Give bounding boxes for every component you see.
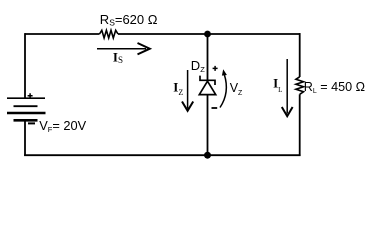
svg-text:IS: IS (113, 50, 123, 66)
wire right lower (299, 94, 301, 156)
svg-text:VF= 20V: VF= 20V (39, 118, 86, 134)
resistor R_S zigzag (100, 30, 119, 38)
svg-text:IZ: IZ (173, 80, 183, 97)
current arrow I_L (282, 59, 293, 116)
battery V_F plates (7, 98, 46, 120)
voltage arc arrow V_Z (220, 69, 227, 107)
node junction top (204, 31, 211, 38)
wire middle lower (207, 95, 209, 156)
current arrow I_S (97, 43, 150, 54)
svg-text:VZ: VZ (230, 81, 243, 97)
resistor R_L zigzag (296, 77, 304, 95)
svg-text:IL: IL (273, 76, 282, 94)
wire left upper (to battery) (24, 33, 26, 98)
svg-text:RS=620 Ω: RS=620 Ω (100, 12, 158, 27)
node junction bottom (204, 152, 211, 159)
svg-text:RL = 450 Ω: RL = 450 Ω (304, 80, 365, 95)
svg-text:DZ: DZ (191, 58, 205, 74)
wire top-left segment (25, 33, 100, 35)
wire right upper (299, 33, 301, 77)
wire top-right segment (118, 33, 301, 35)
current arrow I_Z (182, 70, 193, 111)
wire middle upper (to zener) (207, 33, 209, 80)
zener plus sign (213, 66, 218, 71)
wire bottom (24, 154, 301, 156)
zener diode D_Z cathode bar (200, 76, 215, 85)
wire left lower (battery to bottom) (24, 121, 26, 156)
zener minus sign (212, 107, 218, 109)
zener diode D_Z anode triangle (199, 81, 215, 94)
battery plus sign (28, 93, 33, 98)
battery minus sign (28, 122, 35, 124)
